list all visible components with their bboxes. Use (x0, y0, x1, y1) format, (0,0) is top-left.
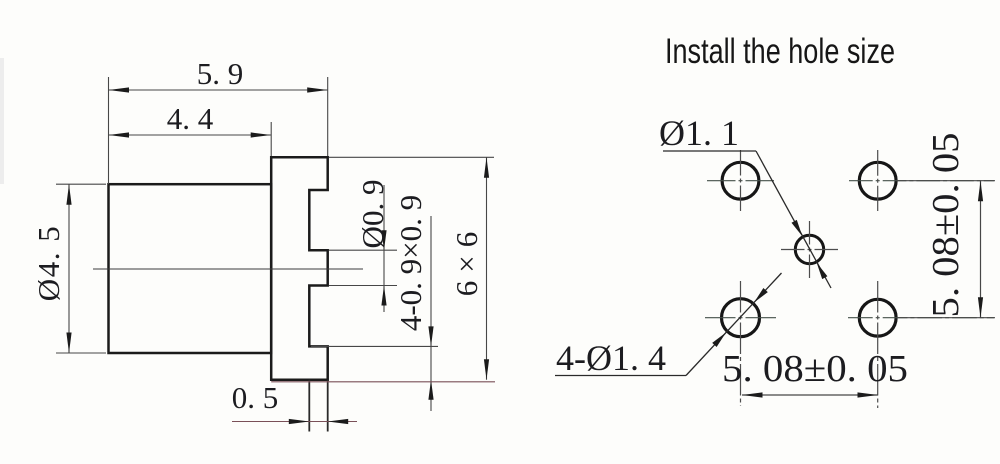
svg-text:4. 4: 4. 4 (167, 101, 214, 136)
dimension 5.08 bottom arrow right (858, 392, 879, 397)
svg-text:4-Ø1. 4: 4-Ø1. 4 (556, 338, 666, 378)
dimension D4.5 arrow top (66, 184, 71, 205)
centerline (93, 268, 363, 270)
leader 4-D1.4 diagonal (686, 273, 782, 376)
solder leg left (308, 380, 310, 432)
hole bottom-right circle (859, 299, 896, 336)
hole center circle (795, 235, 823, 263)
dimension 5.08 bottom arrow left (742, 392, 763, 397)
svg-text:5. 9: 5. 9 (197, 56, 244, 91)
hole top-left circle (722, 162, 759, 199)
shared bottom extension line (271, 381, 495, 383)
hole bottom-left circle (722, 299, 760, 337)
dimension D0.9 line (383, 185, 385, 312)
dimension 0.5 arrow left (289, 419, 310, 424)
dimension 4.4 line (109, 134, 272, 136)
dimension D4.5 arrow bottom (66, 333, 71, 354)
solder leg right (327, 380, 329, 432)
dimension 4-0.9x0.9 arrow upper (428, 326, 433, 346)
svg-text:Ø0. 9: Ø0. 9 (355, 180, 390, 249)
hole bottom-left cross (705, 317, 776, 319)
dimension 5.9 extension line left (108, 77, 110, 184)
svg-text:0. 5: 0. 5 (232, 380, 279, 415)
dimension 5.9 arrow left (109, 87, 130, 92)
dimension 4-0.9x0.9 line (430, 216, 432, 411)
hole center cross (781, 249, 838, 251)
dimension D0.9 extension line bottom (329, 285, 397, 287)
connector body outline (109, 184, 272, 353)
dimension D0.9 arrow bottom (381, 286, 386, 306)
dimension D0.9 arrow top (381, 230, 386, 250)
dimension 4.4 arrow left (109, 132, 130, 137)
dimension 4.4 extension line right (270, 122, 272, 156)
dimension 4.4 arrow right (251, 132, 272, 137)
dimension 4-0.9x0.9 extension line top (311, 345, 438, 347)
svg-text:Ø4. 5: Ø4. 5 (31, 225, 66, 301)
dimension 0.5 arrow right (328, 419, 349, 424)
svg-text:6×6: 6×6 (449, 224, 484, 296)
dimension 6x6 line (486, 157, 488, 379)
dimension D0.9 extension line top (329, 249, 397, 251)
dimension 5.9 line (109, 89, 328, 91)
dimension 5.9 arrow right (307, 87, 328, 92)
dimension D4.5 extension tick top (56, 183, 106, 185)
leader D1.1 underline (663, 150, 756, 152)
dimension 5.9 extension line right (327, 77, 329, 156)
connector flange outline (271, 157, 328, 379)
hole top-right cross (849, 180, 994, 182)
dimension 5.08 right arrow top (978, 181, 983, 202)
dimension 6x6 arrow bottom (484, 359, 489, 380)
dimension 5.08 right extension bottom (898, 317, 995, 319)
leader D1.1 arrow upper (792, 220, 803, 236)
dimension 0.5 line (232, 421, 357, 423)
svg-text:Ø1. 1: Ø1. 1 (659, 113, 739, 153)
leader 4-D1.4 arrow lower (712, 333, 726, 348)
dimension D4.5 line (68, 184, 70, 353)
hole bottom-right cross (848, 317, 994, 319)
leader D1.1 arrow lower (817, 263, 828, 279)
leader 4-D1.4 arrow upper (754, 288, 768, 303)
dimension 5.08 right arrow bottom (978, 297, 983, 318)
leader 4-D1.4 underline (555, 375, 686, 377)
dimension 6x6 arrow top (484, 157, 489, 178)
dimension 5.08 bottom line (742, 394, 878, 396)
svg-text:5. 08±0. 05: 5. 08±0. 05 (925, 133, 967, 318)
svg-text:4-0. 9×0. 9: 4-0. 9×0. 9 (393, 195, 428, 331)
dimension 4-0.9x0.9 arrow lower (428, 380, 433, 400)
svg-text:5. 08±0. 05: 5. 08±0. 05 (722, 348, 908, 390)
dimension D4.5 extension tick bottom (56, 352, 106, 354)
hole top-left cross (707, 180, 774, 182)
leader D1.1 diagonal (756, 151, 831, 288)
hole top-right circle (859, 162, 896, 199)
svg-text:Install the hole size: Install the hole size (665, 32, 895, 71)
dimension 6x6 extension line top (329, 156, 494, 158)
dimension 5.08 right line (980, 181, 982, 318)
left edge faint band (0, 58, 4, 184)
dimension 5.08 right extension top (897, 180, 995, 182)
